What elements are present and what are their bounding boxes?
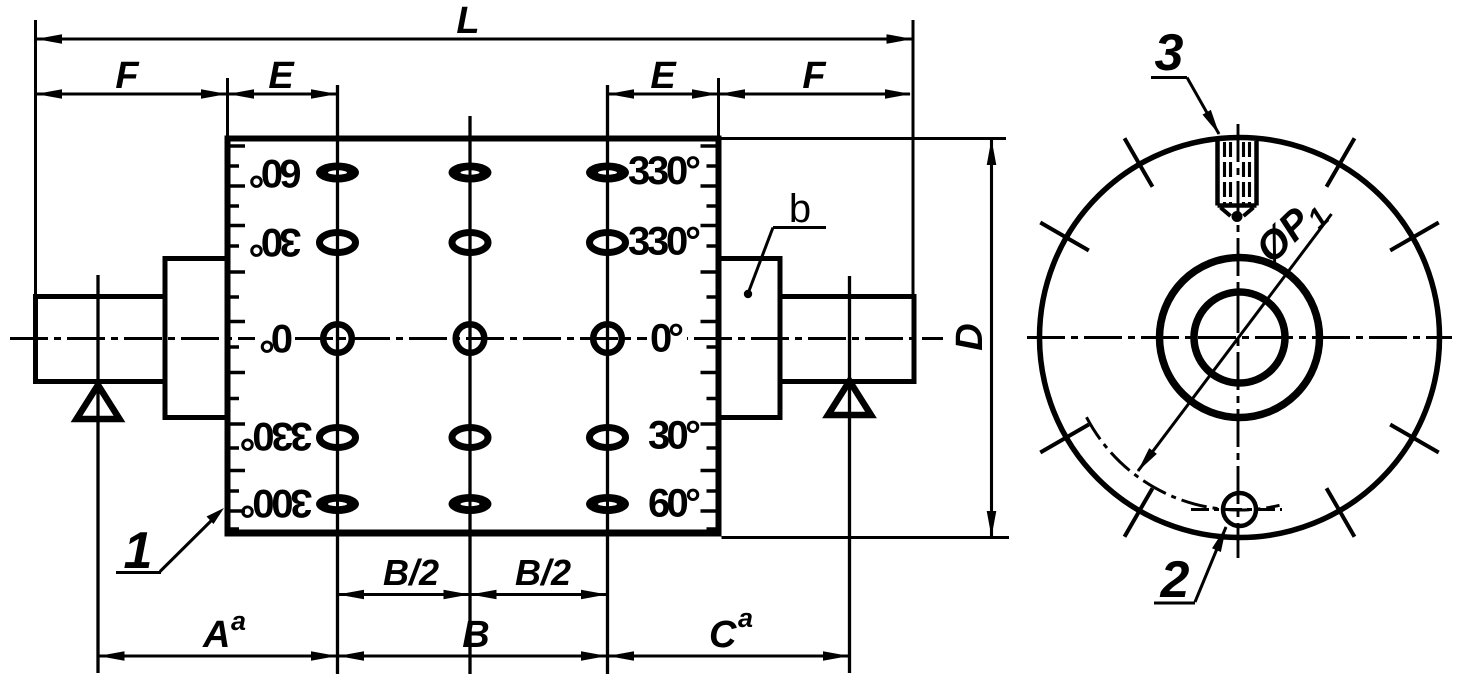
svg-text:D: D — [949, 323, 991, 350]
hole c3r3 (0-deg row) — [593, 313, 622, 365]
hole column centerline 3 — [606, 85, 609, 674]
svg-text:B/2: B/2 — [383, 552, 439, 593]
dimension C — [609, 654, 848, 657]
svg-text:0°: 0° — [259, 316, 293, 360]
axis centerline left view — [10, 337, 943, 340]
dimension L — [37, 37, 912, 40]
support extension line right — [848, 276, 851, 673]
right shaft — [780, 297, 914, 382]
svg-text:0°: 0° — [650, 317, 684, 361]
svg-text:1: 1 — [124, 522, 153, 580]
extension line shaft right end (for L,F) — [912, 20, 915, 297]
svg-text:F: F — [802, 55, 827, 97]
svg-text:60°: 60° — [648, 482, 701, 526]
svg-text:a: a — [738, 603, 753, 633]
extension line drum left edge up (for F,E) — [226, 78, 229, 139]
hole item 2 — [1223, 493, 1256, 526]
svg-text:a: a — [231, 606, 246, 636]
hole c3r4 (30-deg row) — [590, 412, 626, 464]
svg-text:A: A — [202, 614, 230, 656]
dimension E right — [609, 92, 717, 95]
end view vertical centerline — [1237, 124, 1240, 558]
pitch circle arc (dash-dot) — [1087, 417, 1280, 510]
extension line drum right edge up (for E,F) — [717, 78, 720, 139]
svg-text:300°: 300° — [240, 481, 313, 525]
right ruler ticks — [701, 146, 717, 529]
right support triangle — [828, 381, 871, 415]
hole c2r2 (30-deg row) — [452, 217, 488, 269]
svg-text:F: F — [115, 55, 140, 97]
degree label left 0 backing — [255, 324, 288, 354]
svg-text:60°: 60° — [249, 151, 302, 195]
svg-text:330°: 330° — [628, 149, 701, 193]
radial tick marks (30 deg steps) — [1040, 138, 1438, 536]
extension drum bottom edge right (for D) — [722, 536, 1010, 539]
dimension B/2 left — [339, 593, 469, 596]
svg-text:B/2: B/2 — [515, 552, 571, 593]
degree label right 0 backing — [647, 322, 687, 354]
grease fitting threads (dashed) — [1225, 142, 1250, 204]
hole c1r1 (60-deg row) — [316, 147, 359, 199]
dimension D vertical — [990, 140, 993, 536]
extension drum top edge right (for D) — [722, 137, 1007, 140]
dimension E left — [229, 92, 336, 95]
grease fitting tip — [1221, 208, 1254, 217]
svg-text:30°: 30° — [249, 220, 302, 264]
support extension line left — [96, 275, 99, 673]
left bearing block — [165, 259, 228, 418]
svg-text:b: b — [789, 187, 811, 231]
left shaft — [36, 297, 166, 382]
dimension F left — [37, 92, 226, 95]
hole item 2 horizontal centerline — [1191, 508, 1282, 511]
extension line shaft left end (for L,F) — [34, 20, 37, 297]
leader label 1 arrow — [160, 513, 219, 572]
svg-text:E: E — [268, 55, 295, 97]
svg-text:E: E — [650, 55, 677, 97]
svg-text:B: B — [462, 614, 489, 656]
svg-text:2: 2 — [1160, 551, 1190, 609]
end view outer circle — [1040, 138, 1440, 538]
svg-text:C: C — [709, 614, 737, 656]
hole c3r5 (60-deg row) — [586, 478, 629, 530]
hole c1r2 (30-deg row) — [320, 217, 356, 269]
label P1 diameter (rotated) — [1248, 188, 1336, 275]
left ruler ticks — [229, 146, 245, 529]
dimension F right — [720, 92, 910, 95]
end view bore circle — [1194, 292, 1285, 383]
hole column centerline 1 — [336, 85, 339, 674]
hole c1r4 (30-deg row) — [320, 412, 356, 464]
hole column centerline 2 — [468, 116, 471, 674]
end view horizontal centerline — [1027, 336, 1452, 339]
svg-text:3: 3 — [1155, 24, 1184, 82]
svg-text:330°: 330° — [240, 414, 313, 458]
hole c2r5 (60-deg row) — [449, 478, 492, 530]
svg-text:330°: 330° — [628, 220, 701, 264]
hole c3r2 (30-deg row) — [590, 217, 626, 269]
right bearing block — [719, 259, 781, 418]
hole c2r3 (0-deg row) — [456, 313, 485, 365]
drum bottom edge thick — [228, 530, 719, 537]
svg-text:30°: 30° — [648, 414, 701, 458]
hole c1r5 (60-deg row) — [316, 478, 359, 530]
grease fitting item 3 body — [1218, 140, 1257, 206]
drum body (item 1 face) — [228, 139, 719, 534]
hole c2r4 (30-deg row) — [452, 412, 488, 464]
hole c3r1 (60-deg row) — [586, 147, 629, 199]
left support triangle — [77, 385, 120, 419]
hole c1r3 (0-deg row) — [323, 313, 352, 365]
end view hub circle — [1160, 258, 1320, 418]
dimension B/2 right — [472, 593, 607, 596]
leader label b — [773, 226, 826, 229]
dimension B — [339, 654, 606, 657]
svg-text:L: L — [456, 0, 479, 42]
dimension A — [100, 654, 337, 657]
P1 dimension diagonal line — [1138, 214, 1332, 471]
hole c2r1 (60-deg row) — [449, 147, 492, 199]
